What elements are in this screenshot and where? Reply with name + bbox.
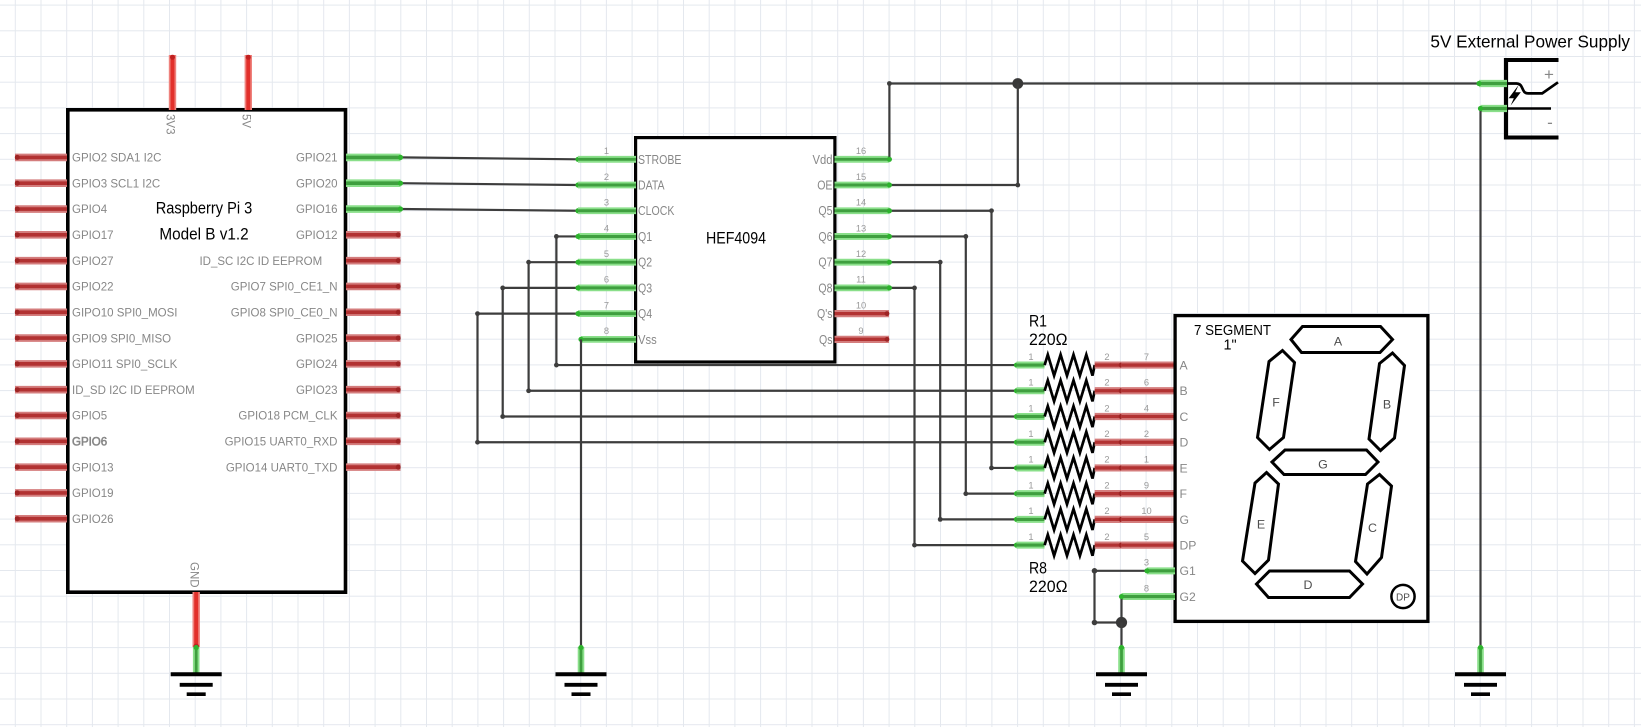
HEF4094 pin 1 STROBE: [578, 146, 681, 167]
svg-text:GPIO25: GPIO25: [296, 333, 338, 345]
7-segment pin label G1: [1180, 564, 1196, 578]
7-segment pin label DP: [1180, 539, 1197, 553]
resistor R5 220 ohm: [1017, 455, 1124, 479]
ground under Raspberry Pi: [171, 645, 222, 694]
svg-text:GPIO7 SPI0_CE1_N: GPIO7 SPI0_CE1_N: [231, 282, 338, 294]
svg-text:1: 1: [1028, 506, 1033, 516]
Pi pin GIPO10 SPI0_MOSI: [15, 307, 178, 319]
svg-text:2: 2: [604, 172, 609, 182]
Pi pin GPIO21 (connected): [296, 153, 401, 165]
svg-text:Model B v1.2: Model B v1.2: [159, 225, 248, 243]
wire Vss-GND: [580, 339, 582, 648]
svg-text:DP: DP: [1180, 539, 1197, 553]
7-segment pin label B: [1180, 384, 1188, 398]
svg-text:1: 1: [1028, 352, 1033, 362]
svg-text:5: 5: [604, 249, 609, 259]
svg-text:GPIO22: GPIO22: [72, 282, 114, 294]
resistor R4 220 ohm: [1017, 429, 1124, 453]
wire Q3-R3(C): [500, 285, 1019, 419]
Pi pin GPIO4: [15, 204, 108, 216]
svg-text:5V External Power Supply: 5V External Power Supply: [1430, 32, 1630, 52]
svg-text:GPIO12: GPIO12: [296, 230, 338, 242]
Pi pin ID_SC I2C ID EEPROM: [199, 256, 400, 268]
HEF4094 pin 15 OE: [817, 172, 889, 193]
svg-text:14: 14: [856, 198, 866, 208]
IC HEF4094 body: [636, 138, 835, 362]
resistor R3 220 ohm: [1017, 403, 1124, 427]
svg-text:F: F: [1272, 396, 1280, 410]
Raspberry Pi 3 module body: [68, 110, 346, 592]
wire Q8-R8(DP): [887, 285, 1019, 547]
Pi pin GPIO19: [15, 488, 114, 500]
Pi pin GPIO9 SPI0_MISO: [15, 333, 171, 345]
wire G2 to ground net: [1119, 594, 1124, 623]
svg-text:STROBE: STROBE: [638, 153, 681, 167]
svg-text:R8: R8: [1029, 559, 1047, 578]
svg-text:G2: G2: [1180, 590, 1196, 604]
wire GPIO16-CLOCK: [398, 206, 581, 213]
segment E: [1243, 473, 1279, 574]
svg-text:B: B: [1383, 398, 1391, 412]
svg-text:5V: 5V: [240, 114, 252, 128]
Pi pin GPIO26: [15, 514, 114, 526]
Pi pin GPIO17: [15, 230, 114, 242]
wire Q5-R5(E): [887, 208, 1019, 470]
wire Q1-R1(A): [554, 234, 1019, 368]
junction G1/G2 ground: [1116, 617, 1127, 648]
svg-text:GPIO14 UART0_TXD: GPIO14 UART0_TXD: [226, 462, 338, 474]
svg-text:5: 5: [1144, 532, 1149, 542]
junction 5V rail: [1012, 78, 1023, 89]
HEF4094 pin 9 Qs: [819, 326, 889, 347]
svg-text:F: F: [1180, 487, 1187, 501]
svg-text:Q7: Q7: [818, 256, 832, 270]
svg-text:3: 3: [604, 198, 609, 208]
ground under 7-segment: [1096, 645, 1147, 694]
wire Q2-R2(B): [526, 260, 1019, 394]
svg-text:GPIO21: GPIO21: [296, 153, 338, 165]
7-segment pin 2: [1121, 429, 1175, 442]
svg-text:4: 4: [1144, 403, 1149, 413]
ground under HEF4094: [556, 645, 607, 694]
svg-text:1: 1: [604, 146, 609, 156]
svg-text:1: 1: [1028, 480, 1033, 490]
svg-text:GPIO18 PCM_CLK: GPIO18 PCM_CLK: [238, 411, 337, 423]
svg-text:GPIO8 SPI0_CE0_N: GPIO8 SPI0_CE0_N: [231, 307, 338, 319]
svg-text:GND: GND: [187, 562, 199, 588]
svg-text:GPIO19: GPIO19: [72, 488, 114, 500]
svg-text:B: B: [1180, 384, 1188, 398]
HEF4094 pin 10 Q's: [817, 300, 889, 321]
segment DP: [1391, 585, 1414, 608]
svg-text:+: +: [1544, 65, 1554, 84]
svg-text:GPIO9 SPI0_MISO: GPIO9 SPI0_MISO: [72, 333, 171, 345]
svg-text:3: 3: [1144, 558, 1149, 568]
svg-text:16: 16: [856, 146, 866, 156]
ground under power supply: [1455, 645, 1506, 694]
svg-text:Q6: Q6: [818, 230, 832, 244]
svg-text:G: G: [1318, 458, 1328, 472]
HEF4094 pin 2 DATA: [578, 172, 665, 193]
Pi pin GPIO23: [296, 385, 401, 397]
svg-text:DP: DP: [1396, 592, 1410, 603]
svg-text:2: 2: [1104, 532, 1109, 542]
svg-text:ID_SC I2C ID EEPROM: ID_SC I2C ID EEPROM: [199, 256, 322, 268]
svg-text:GPIO15 UART0_RXD: GPIO15 UART0_RXD: [225, 437, 338, 449]
svg-text:-: -: [1547, 113, 1553, 132]
svg-text:GPIO24: GPIO24: [296, 359, 338, 371]
7-segment pin label C: [1180, 410, 1189, 424]
segment C: [1356, 475, 1392, 575]
svg-text:1: 1: [1028, 532, 1033, 542]
svg-text:9: 9: [1144, 480, 1149, 490]
Pi pin GPIO15 UART0_RXD: [225, 437, 401, 449]
HEF4094 pin 8 Vss: [578, 326, 656, 347]
svg-text:D: D: [1304, 578, 1313, 592]
label R1 220 ohm: [1029, 312, 1068, 350]
7-segment pin 4: [1121, 403, 1175, 416]
Pi pin GPIO18 PCM_CLK: [238, 411, 400, 423]
7-segment pin label F: [1180, 487, 1187, 501]
svg-text:Raspberry Pi 3: Raspberry Pi 3: [156, 200, 253, 218]
wire GPIO21-STROBE: [398, 155, 581, 162]
label 5V External Power Supply: [1430, 32, 1630, 52]
7-segment pin 8 G2: [1122, 583, 1176, 596]
segment B: [1369, 353, 1405, 451]
svg-text:OE: OE: [817, 179, 832, 193]
svg-text:GPIO26: GPIO26: [72, 514, 114, 526]
svg-text:GPIO16: GPIO16: [296, 204, 338, 216]
svg-text:Q5: Q5: [818, 204, 832, 218]
svg-text:GPIO6: GPIO6: [72, 437, 107, 449]
svg-text:GPIO17: GPIO17: [72, 230, 114, 242]
svg-text:7: 7: [1144, 352, 1149, 362]
svg-text:2: 2: [1104, 352, 1109, 362]
7-segment pin label E: [1180, 461, 1188, 475]
HEF4094 pin 13 Q6: [818, 223, 889, 244]
svg-text:7: 7: [604, 300, 609, 310]
svg-text:ID_SD I2C ID EEPROM: ID_SD I2C ID EEPROM: [72, 385, 195, 397]
7-segment pin 3 G1: [1144, 558, 1175, 571]
svg-text:C: C: [1368, 521, 1377, 535]
svg-text:2: 2: [1104, 429, 1109, 439]
7-segment pin label D: [1180, 436, 1189, 450]
Pi pin GPIO20 (connected): [296, 178, 401, 190]
svg-text:E: E: [1257, 518, 1265, 532]
HEF4094 pin 12 Q7: [818, 249, 889, 270]
power supply PS1 body: [1504, 58, 1559, 140]
7-segment pin label A: [1180, 358, 1189, 372]
svg-text:8: 8: [604, 326, 609, 336]
svg-text:E: E: [1180, 461, 1188, 475]
wire - to ground: [1478, 106, 1483, 648]
svg-text:GPIO20: GPIO20: [296, 178, 338, 190]
Pi pin GPIO3 SCL1 I2C: [15, 178, 160, 190]
7-segment pin 6: [1121, 378, 1175, 391]
7-segment pin 5: [1121, 532, 1175, 545]
svg-text:6: 6: [1144, 378, 1149, 388]
Pi pin GPIO2 SDA1 I2C: [15, 153, 162, 165]
svg-text:1: 1: [1028, 378, 1033, 388]
svg-text:D: D: [1180, 436, 1189, 450]
HEF4094 pin 4 Q1: [578, 223, 652, 244]
7-segment pin 9: [1121, 480, 1175, 493]
svg-text:G1: G1: [1180, 564, 1196, 578]
segment A: [1291, 327, 1393, 353]
Pi pin ID_SD I2C ID EEPROM: [15, 385, 195, 397]
svg-text:GIPO10 SPI0_MOSI: GIPO10 SPI0_MOSI: [72, 307, 177, 319]
svg-text:DATA: DATA: [638, 179, 665, 193]
svg-text:1: 1: [1144, 455, 1149, 465]
svg-text:2: 2: [1104, 378, 1109, 388]
svg-text:2: 2: [1104, 480, 1109, 490]
power supply - pin: [1481, 105, 1508, 112]
resistor R6 220 ohm: [1017, 480, 1124, 504]
svg-text:2: 2: [1144, 429, 1149, 439]
svg-text:A: A: [1334, 335, 1343, 349]
svg-text:Q1: Q1: [638, 230, 652, 244]
svg-text:Q4: Q4: [638, 307, 652, 321]
svg-text:13: 13: [856, 223, 866, 233]
svg-text:Q3: Q3: [638, 281, 652, 295]
Pi pin GPIO16 (connected): [296, 204, 401, 216]
Pi pin GPIO5: [15, 411, 107, 423]
Pi pin GPIO7 SPI0_CE1_N: [231, 282, 401, 294]
svg-text:GPIO5: GPIO5: [72, 411, 107, 423]
svg-text:GPIO13: GPIO13: [72, 462, 114, 474]
svg-text:R1: R1: [1029, 312, 1047, 331]
svg-text:Q8: Q8: [818, 281, 832, 295]
wire Q6-R6(F): [887, 234, 1019, 496]
Pi pin GPIO27: [15, 256, 114, 268]
HEF4094 pin 14 Q5: [818, 198, 889, 219]
segment D: [1257, 571, 1363, 598]
svg-text:HEF4094: HEF4094: [706, 229, 766, 248]
svg-text:10: 10: [1141, 506, 1151, 516]
svg-text:220Ω: 220Ω: [1029, 330, 1068, 349]
svg-text:GPIO3 SCL1 I2C: GPIO3 SCL1 I2C: [72, 178, 160, 190]
svg-text:A: A: [1180, 358, 1189, 372]
Pi pin 3V3: [164, 55, 176, 135]
segment F: [1258, 351, 1295, 450]
svg-text:1: 1: [1028, 403, 1033, 413]
svg-text:2: 2: [1104, 455, 1109, 465]
svg-text:GPIO11 SPI0_SCLK: GPIO11 SPI0_SCLK: [72, 359, 178, 371]
HEF4094 pin 5 Q2: [578, 249, 652, 270]
svg-text:6: 6: [604, 275, 609, 285]
wire OE to rail: [887, 84, 1020, 188]
resistor R1 220 ohm: [1017, 352, 1124, 376]
svg-text:220Ω: 220Ω: [1029, 577, 1068, 596]
svg-text:Qs: Qs: [819, 333, 833, 347]
Pi pin GPIO8 SPI0_CE0_N: [231, 307, 401, 319]
svg-text:GPIO27: GPIO27: [72, 256, 114, 268]
HEF4094 pin 7 Q4: [578, 300, 652, 321]
wire Vdd to 5V rail: [887, 81, 1479, 162]
resistor R8 220 ohm: [1017, 532, 1124, 556]
svg-text:Q2: Q2: [638, 256, 652, 270]
Pi pin GPIO12: [296, 230, 401, 242]
Pi pin GPIO6: [15, 437, 107, 449]
Pi pin 5V: [240, 55, 252, 129]
Pi pin GND: [187, 562, 199, 649]
svg-text:1: 1: [1028, 429, 1033, 439]
7-segment pin 7: [1121, 352, 1175, 365]
svg-text:G: G: [1180, 513, 1189, 527]
svg-text:12: 12: [856, 249, 866, 259]
wire G1 to ground net: [1092, 568, 1150, 625]
svg-text:3V3: 3V3: [164, 114, 176, 134]
segment G: [1272, 450, 1378, 475]
wire 5V rail to +: [1476, 81, 1481, 86]
Pi pin GPIO24: [296, 359, 401, 371]
svg-text:GPIO4: GPIO4: [72, 204, 108, 216]
Pi pin GPIO22: [15, 282, 114, 294]
svg-text:10: 10: [856, 300, 866, 310]
Pi pin GPIO13: [15, 462, 114, 474]
HEF4094 pin 3 CLOCK: [578, 198, 675, 219]
svg-text:Vss: Vss: [638, 333, 657, 347]
wire Q4-R4(D): [475, 311, 1019, 445]
svg-text:2: 2: [1104, 403, 1109, 413]
svg-text:4: 4: [604, 223, 609, 233]
svg-text:8: 8: [1144, 583, 1149, 593]
svg-text:9: 9: [858, 326, 863, 336]
svg-text:Q's: Q's: [817, 307, 833, 321]
svg-text:15: 15: [856, 172, 866, 182]
label R8 220 ohm: [1029, 559, 1068, 597]
Pi pin GPIO25: [296, 333, 401, 345]
svg-text:GPIO2 SDA1 I2C: GPIO2 SDA1 I2C: [72, 153, 161, 165]
Pi pin GPIO14 UART0_TXD: [226, 462, 401, 474]
HEF4094 pin 6 Q3: [578, 275, 652, 296]
svg-text:CLOCK: CLOCK: [638, 204, 675, 218]
svg-text:1": 1": [1223, 338, 1236, 354]
HEF4094 pin 11 Q8: [818, 275, 889, 296]
wire GPIO20-DATA: [398, 181, 581, 188]
wire Q7-R7(G): [887, 260, 1019, 522]
7-segment pin label G2: [1180, 590, 1196, 604]
power supply + pin: [1479, 80, 1507, 87]
svg-text:C: C: [1180, 410, 1189, 424]
HEF4094 pin 16 Vdd: [813, 146, 890, 167]
7-segment pin 10: [1121, 506, 1175, 519]
resistor R2 220 ohm: [1017, 378, 1124, 402]
svg-text:2: 2: [1104, 506, 1109, 516]
svg-text:GPIO23: GPIO23: [296, 385, 338, 397]
svg-text:1: 1: [1028, 455, 1033, 465]
resistor R7 220 ohm: [1017, 506, 1124, 530]
7-segment pin label G: [1180, 513, 1189, 527]
7-segment pin 1: [1121, 455, 1175, 468]
Pi pin GPIO11 SPI0_SCLK: [15, 359, 178, 371]
svg-text:Vdd: Vdd: [813, 153, 833, 167]
7-segment display body: [1175, 316, 1428, 622]
svg-text:11: 11: [856, 275, 866, 285]
